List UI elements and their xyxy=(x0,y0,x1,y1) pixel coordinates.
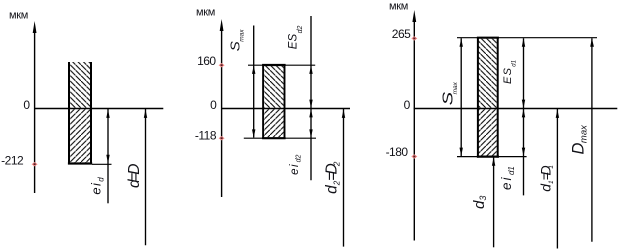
tolerance zone TD2 upper hatch (nut) xyxy=(264,66,284,108)
arrow down at -180 (eid1) xyxy=(522,148,525,157)
red marker -212 xyxy=(32,162,38,166)
arrow up at +265 (Smax3) xyxy=(460,38,463,47)
zone 2 bottom border (-118 level) xyxy=(262,137,286,139)
svg-text:мкм: мкм xyxy=(389,1,408,13)
arrow up at zero (d2=D2) xyxy=(342,109,345,118)
zone 2 top border (+160 level) xyxy=(262,64,286,66)
arrow down at -212 (ei) xyxy=(106,155,109,164)
tolerance zone Td2 lower hatch (bolt) xyxy=(264,109,284,137)
axis 3 arrowhead xyxy=(412,10,416,22)
dimension line ei (d) xyxy=(107,109,109,203)
axis 1 xyxy=(34,30,36,193)
red marker +265 xyxy=(411,36,417,40)
arrow down at zero (ESd2) xyxy=(309,100,312,109)
arrow up at +265 (ESd1) xyxy=(522,38,525,47)
svg-text:d1=D1: d1=D1 xyxy=(538,165,556,192)
extension line -212 xyxy=(92,163,112,165)
dimension line d3 xyxy=(493,157,495,247)
svg-text:-118: -118 xyxy=(195,128,217,142)
dimension line Smax (3) xyxy=(460,38,462,156)
zero line 3 xyxy=(414,108,618,110)
zone 2 left border xyxy=(262,65,264,139)
red marker +160 xyxy=(219,63,225,67)
dimension line d2=D2 nominal xyxy=(343,109,345,247)
svg-text:-212: -212 xyxy=(1,153,24,167)
svg-text:мкм: мкм xyxy=(9,10,28,22)
extension line -118 xyxy=(244,137,316,139)
arrow up at +160 (ESd2) xyxy=(309,65,312,74)
dimension line ESd1 / eid1 xyxy=(523,38,525,195)
tolerance zone Td lower hatch (bolt) xyxy=(68,109,92,163)
svg-text:d=D: d=D xyxy=(126,164,143,189)
zone 1 left border xyxy=(68,62,70,164)
dimension line Dmax xyxy=(591,38,593,242)
arrow up at +160 (Smax2) xyxy=(252,65,255,74)
arrow up at zero (ei) xyxy=(106,109,109,118)
svg-text:0: 0 xyxy=(404,98,411,112)
axis 2 arrowhead xyxy=(220,19,224,31)
extension line +160 xyxy=(248,64,315,66)
tolerance zone Td1 lower hatch (bolt) xyxy=(478,109,497,155)
zone 2 right border xyxy=(284,65,286,139)
svg-text:d2=D2: d2=D2 xyxy=(324,161,342,194)
arrow up at zero (d1=D1) xyxy=(556,109,559,118)
svg-text:0: 0 xyxy=(210,98,217,112)
arrow down at -180 (Smax3) xyxy=(460,148,463,157)
svg-text:мкм: мкм xyxy=(196,7,215,19)
arrow down at -118 (Smax2) xyxy=(252,129,255,138)
extension line -180 xyxy=(457,156,527,158)
zero line 1 xyxy=(34,108,163,110)
arrow up at zero (eid2) xyxy=(309,109,312,118)
red marker -118 xyxy=(219,136,225,140)
zone 3 top border (+265 level) xyxy=(477,37,499,39)
zero line 2 xyxy=(221,108,350,110)
arrow up at zero (d=D) xyxy=(144,109,147,118)
arrow down at -118 (eid2) xyxy=(309,129,312,138)
axis 2 xyxy=(221,28,223,197)
dimension line ESd2 / eid2 xyxy=(310,16,312,180)
axis 1 arrowhead xyxy=(33,21,37,33)
dimension line d=D nominal xyxy=(145,109,147,245)
extension line +265 xyxy=(457,37,597,39)
axis 3 xyxy=(413,19,415,241)
arrow down at zero (ESd1) xyxy=(522,100,525,109)
zone 3 bottom border (-180 level) xyxy=(477,156,499,158)
zone 3 left border xyxy=(477,37,479,158)
arrow up at -180 (d3) xyxy=(492,157,495,166)
zone 1 right border xyxy=(90,62,92,164)
svg-text:265: 265 xyxy=(392,27,411,41)
zone 3 right border xyxy=(497,37,499,158)
svg-text:0: 0 xyxy=(23,98,30,112)
arrow up at +265 (Dmax) xyxy=(590,38,594,47)
dimension line d1=D1 nominal xyxy=(556,109,558,249)
tolerance zone TD1 upper hatch (nut) xyxy=(478,39,497,108)
dimension line Smax (2) xyxy=(253,26,255,138)
zone 1 bottom border (-212 level) xyxy=(68,162,92,164)
red marker -180 xyxy=(411,154,417,158)
svg-text:160: 160 xyxy=(197,54,216,68)
tolerance zone TD upper hatch (nut) xyxy=(68,62,92,108)
arrow up at zero (eid1) xyxy=(522,109,525,118)
svg-text:-180: -180 xyxy=(386,145,409,159)
